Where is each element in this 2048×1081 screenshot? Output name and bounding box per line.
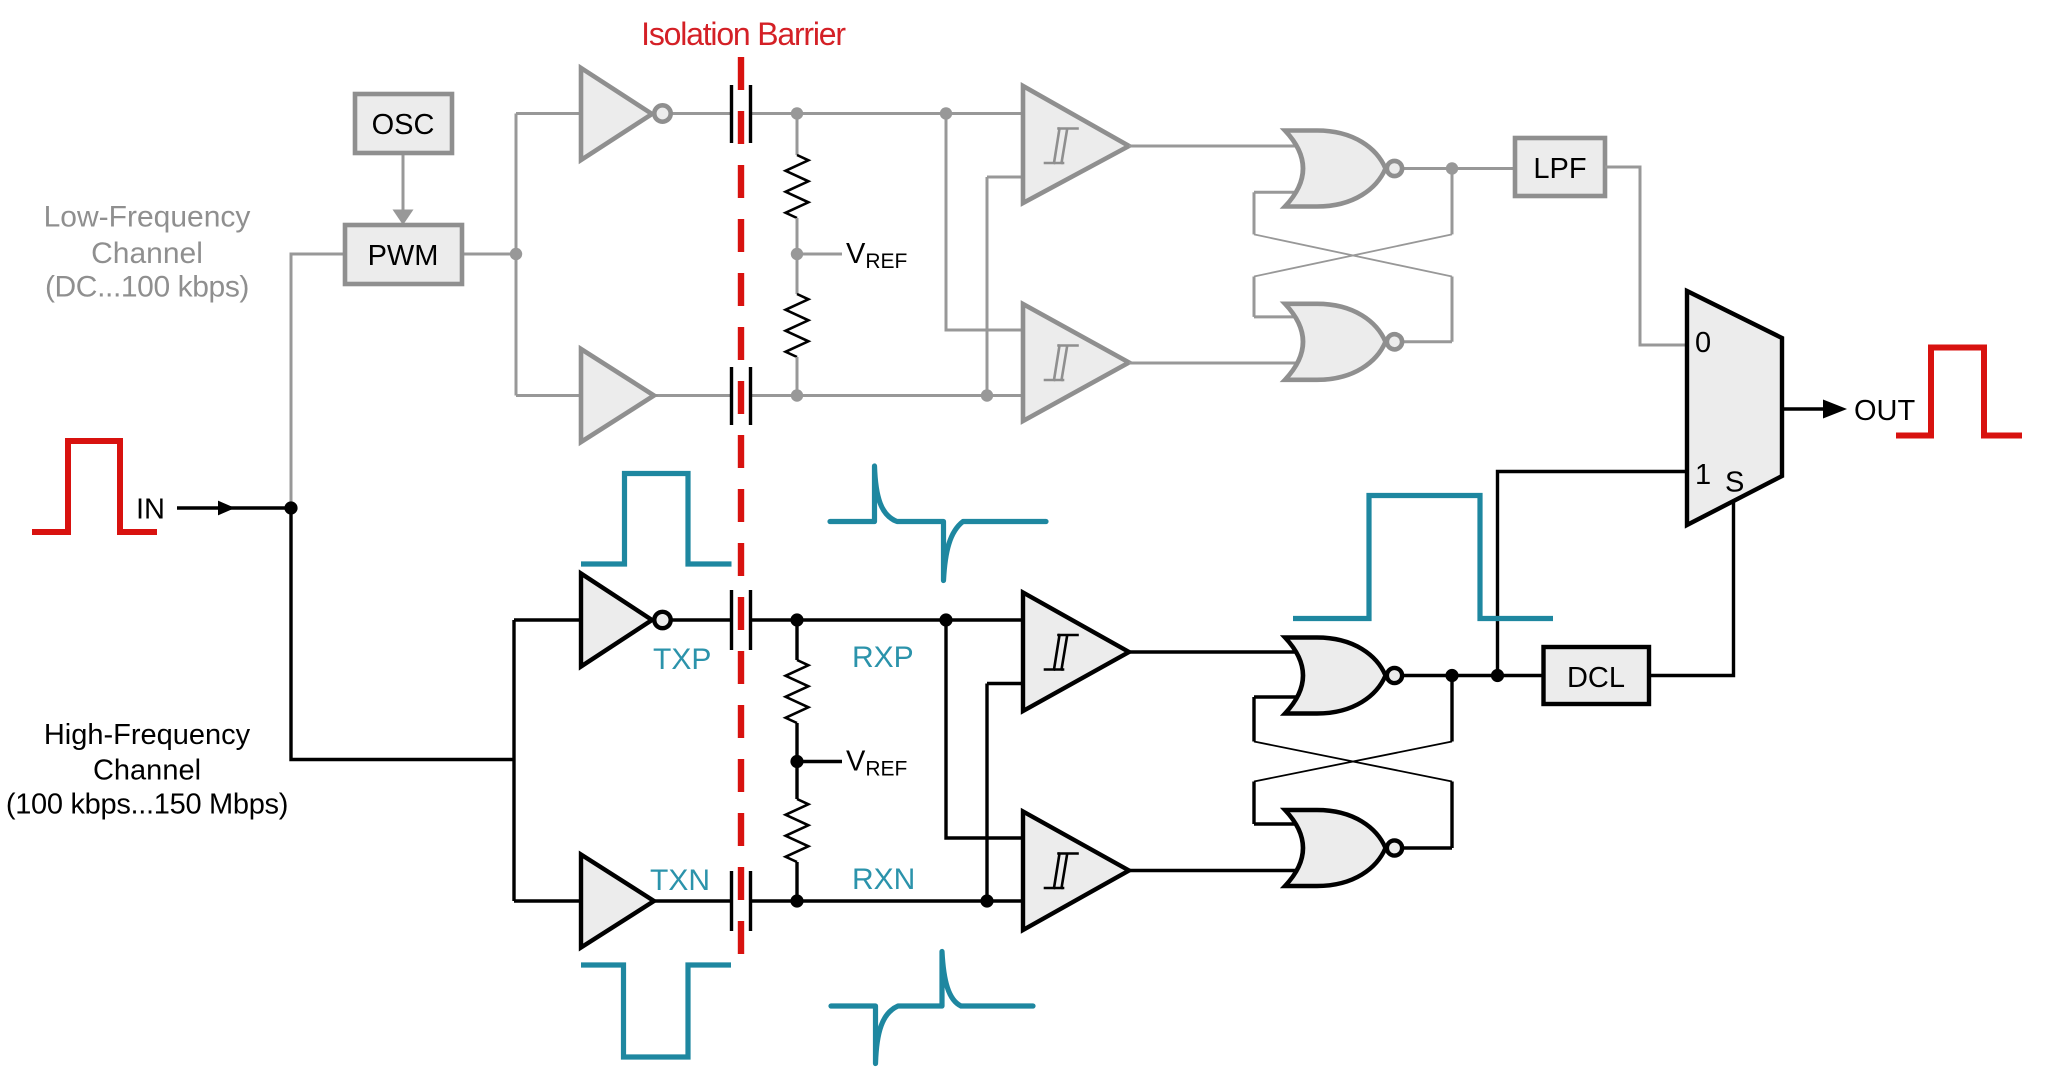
op-amp U5 upper HF Schmitt comparator (1023, 593, 1129, 712)
svg-text:(100 kbps...150 Mbps): (100 kbps...150 Mbps) (6, 789, 288, 821)
svg-text:High-Frequency: High-Frequency (44, 719, 251, 751)
node RXP junction at resistor (790, 613, 803, 626)
resistor R2 stub bottom (796, 357, 799, 396)
waveform TXN pulse (teal) (581, 965, 731, 1057)
node VREF HF (790, 755, 803, 768)
arrowhead OSC to PWM (393, 210, 414, 226)
bubble U1 (654, 105, 670, 121)
buffer Q1 TXP driver (581, 574, 652, 667)
op-amp U3 upper LF Schmitt comparator (1023, 86, 1129, 203)
hysteresis glyph U6 (1045, 854, 1078, 889)
wire RXP: cap to Schmitt U5 (750, 618, 1030, 621)
wire into bottom LF driver (516, 394, 585, 397)
NOR gate G3 (1285, 638, 1386, 714)
waveform TXP pulse (teal) (581, 474, 732, 565)
wire feedback left vertical lower HF (1252, 782, 1255, 825)
node PWM output junction (510, 248, 522, 260)
svg-text:0: 0 (1695, 327, 1711, 359)
wire G1 output to LPF (1404, 167, 1515, 170)
buffer U2 bottom LF driver (581, 349, 654, 442)
wire diagonal cross B (1254, 234, 1452, 276)
wire G4 upper input feedback stub (1254, 822, 1300, 825)
hysteresis glyph U3 (1045, 129, 1078, 164)
node IN junction (284, 501, 297, 514)
svg-text:DCL: DCL (1567, 662, 1625, 694)
resistor R4 zigzag (786, 799, 809, 862)
wire feedback right vertical lower HF (1450, 782, 1453, 849)
waveform OUT pulse (red) (1896, 348, 2022, 436)
wire PWM output to split node (462, 253, 516, 256)
wire bottom driver output to capacitor (652, 394, 732, 397)
isolation barrier dashed line (738, 57, 744, 960)
NOR gate G4 (1285, 810, 1386, 886)
svg-text:LPF: LPF (1533, 153, 1586, 185)
arrowhead IN lead (218, 501, 235, 516)
wire U5 output to NOR G3 (1129, 650, 1300, 653)
wire G1 lower input feedback stub (1254, 191, 1300, 194)
waveform select pulse (teal) (1293, 496, 1553, 619)
waveform IN pulse (red) (32, 441, 157, 532)
node HF latch output junction (1445, 669, 1458, 682)
arrowhead OUT (1823, 400, 1847, 419)
wire feedback right vertical lower (1451, 277, 1454, 342)
resistor R1 zigzag (786, 155, 809, 218)
wire cross-connect node B to upper Schmitt lower input (986, 177, 989, 396)
buffer U1 top LF driver (581, 68, 652, 160)
node latch output junction (1446, 162, 1458, 174)
wire G3 output to DCL (1404, 674, 1543, 677)
wire stub upper Schmitt lower input (987, 176, 1030, 179)
wire G4 output to right vertical (1404, 846, 1452, 849)
svg-text:Channel: Channel (93, 755, 201, 787)
wire select tap to mux 1 input (1498, 472, 1691, 676)
OSC box (355, 94, 452, 153)
wire into TXN driver (514, 899, 585, 902)
svg-text:1: 1 (1695, 459, 1711, 491)
wire G2 output to right vertical (1404, 340, 1452, 343)
wire TXN driver output to capacitor (652, 899, 732, 902)
wire VREF label stub (797, 253, 842, 256)
bubble Q1 (654, 612, 670, 628)
wire RXP node to lower Schmitt upper input (946, 620, 1030, 838)
buffer Q2 TXN driver (581, 855, 654, 948)
wire U3 output to NOR G1 (1129, 145, 1300, 148)
resistor R1 stub bottom to VREF node (796, 218, 799, 254)
wire LPF to mux 0 input (1605, 167, 1690, 345)
op-amp U6 lower HF Schmitt comparator (1023, 812, 1129, 931)
bubble G4 (1387, 840, 1402, 855)
wire IN lead (177, 506, 291, 509)
node RXN junction at resistor (790, 894, 803, 907)
capacitor C3 right plate (749, 590, 752, 650)
node RXN junction at cross-connect (981, 389, 993, 401)
resistor R4 stub bottom (795, 862, 798, 901)
wire HF trunk (291, 508, 514, 760)
svg-text:RXP: RXP (852, 641, 914, 674)
wire TXP driver output to capacitor (672, 618, 732, 621)
wire diagonal cross C (1254, 742, 1452, 782)
node RXN junction at resistor (791, 389, 803, 401)
svg-text:S: S (1725, 467, 1744, 499)
hysteresis glyph U4 (1045, 346, 1078, 381)
wire OUT lead (1782, 407, 1830, 410)
wire feedback left vertical lower (1253, 277, 1256, 317)
wire split vertical to both LF drivers (515, 114, 518, 396)
node select tap junction (1491, 669, 1504, 682)
svg-text:Channel: Channel (91, 237, 203, 270)
wire U4 output to NOR G2 (1129, 362, 1300, 365)
wire LF trunk from IN node up to PWM (291, 254, 345, 508)
wire diagonal cross A (1254, 234, 1452, 276)
capacitor C4 left plate (730, 871, 733, 931)
bubble G2 (1387, 334, 1402, 349)
multiplexer MUX1 (1687, 291, 1782, 525)
wire feedback right vertical upper (1451, 169, 1454, 235)
wire feedback left vertical upper HF (1252, 697, 1255, 742)
node VREF LF (791, 248, 803, 260)
capacitor C1 right plate (749, 85, 752, 143)
resistor R2 stub top (796, 254, 799, 294)
wire diagonal cross D (1254, 742, 1452, 782)
resistor R3 stub top (795, 620, 798, 660)
wire stub upper Schmitt lower input (987, 682, 1030, 685)
wire feedback right vertical upper HF (1450, 676, 1453, 742)
node RXP junction at cross-connect (939, 613, 952, 626)
svg-text:IN: IN (136, 494, 165, 526)
svg-text:TXP: TXP (653, 643, 711, 676)
wire into TXP driver (514, 618, 585, 621)
bubble G3 (1387, 668, 1402, 683)
node RXP junction at cross-connect (940, 107, 952, 119)
svg-text:RXN: RXN (852, 863, 915, 896)
NOR gate G2 (1285, 304, 1386, 380)
svg-text:OUT: OUT (1854, 395, 1916, 427)
svg-text:Isolation Barrier: Isolation Barrier (641, 16, 846, 52)
resistor R3 zigzag (786, 660, 809, 723)
PWM box (345, 225, 462, 284)
LPF box (1515, 138, 1605, 196)
svg-text:OSC: OSC (372, 109, 435, 141)
DCL box (1544, 647, 1650, 704)
svg-text:PWM: PWM (368, 240, 439, 272)
svg-text:Low-Frequency: Low-Frequency (44, 201, 251, 234)
capacitor C2 right plate (749, 367, 752, 425)
resistor R3 stub bottom (795, 723, 798, 762)
NOR gate G1 (1285, 131, 1386, 207)
wire G2 upper input feedback stub (1254, 315, 1300, 318)
waveform RXP spikes (teal) (830, 466, 1046, 581)
wire RXN: cap to Schmitt U6 (750, 899, 1030, 902)
wire G3 lower input feedback stub (1254, 695, 1300, 698)
wire into top LF driver (516, 112, 585, 115)
wire RXN node to upper Schmitt lower input (985, 684, 988, 902)
op-amp U4 lower LF Schmitt comparator (1023, 304, 1129, 421)
wire top driver output to capacitor (672, 112, 732, 115)
resistor R2 zigzag (786, 294, 809, 357)
svg-text:(DC...100 kbps): (DC...100 kbps) (45, 271, 249, 304)
node RXN junction at cross-connect (980, 894, 993, 907)
wire RXP top: cap to Schmitt U3 (750, 112, 1030, 115)
capacitor C1 left plate (730, 85, 733, 143)
waveform RXN spikes (teal) (831, 952, 1033, 1064)
bubble G1 (1387, 161, 1402, 176)
wire RXN bottom: cap to Schmitt U4 (750, 394, 1030, 397)
capacitor C3 left plate (730, 590, 733, 650)
capacitor C4 right plate (749, 871, 752, 931)
wire cross-connect node A to lower Schmitt upper input (946, 114, 1030, 331)
capacitor C2 left plate (730, 367, 733, 425)
wire VREF HF label stub (797, 760, 842, 763)
wire OSC to PWM (402, 153, 405, 211)
resistor R1 stub top (796, 114, 799, 156)
resistor R4 stub top (795, 762, 798, 800)
wire DCL output to mux S (1649, 499, 1734, 676)
wire feedback left vertical upper (1253, 192, 1256, 234)
hysteresis glyph U5 (1045, 635, 1078, 670)
svg-text:TXN: TXN (650, 864, 710, 897)
wire HF split vertical (512, 620, 515, 901)
node RXP junction at resistor (791, 107, 803, 119)
wire U6 output to NOR G4 (1129, 869, 1300, 872)
